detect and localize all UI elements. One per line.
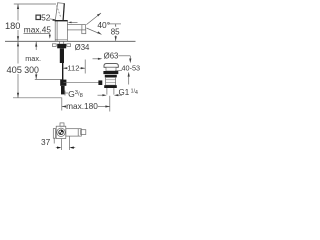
square symbol of 52	[36, 15, 40, 19]
arrow above spout	[68, 22, 72, 24]
svg-text:52: 52	[41, 12, 51, 22]
pipe thread dim arrows	[98, 94, 103, 96]
dim max300 upper line	[35, 42, 37, 50]
drain threaded body	[106, 77, 116, 85]
detail stub	[81, 130, 86, 135]
arrow up top (180)	[17, 4, 19, 9]
dim chain vertical line	[17, 4, 19, 98]
svg-text:Ø34: Ø34	[75, 43, 90, 52]
detail ext lines	[60, 139, 62, 150]
arrow down at deck (180)	[17, 36, 19, 41]
svg-text:300: 300	[24, 65, 39, 75]
dim 405 bottom tick	[13, 97, 62, 99]
hose	[62, 63, 64, 80]
G3/8 tick	[64, 91, 66, 96]
drain locknut dark	[104, 85, 117, 88]
svg-text:Ø63: Ø63	[104, 51, 119, 60]
svg-text:max.45: max.45	[24, 25, 52, 35]
below deck: washer wings	[52, 44, 56, 47]
hose end tube	[61, 86, 65, 95]
svg-text:max.: max.	[25, 54, 41, 63]
detail circle	[57, 128, 65, 136]
leader arrow before O63	[93, 58, 100, 60]
shank tube below deck	[59, 41, 61, 44]
svg-text:405: 405	[6, 65, 22, 75]
spout	[67, 25, 85, 30]
drain centerline ext	[109, 96, 111, 112]
white gaps behind texts on dimension lines	[4, 21, 121, 75]
drain band2 dark	[105, 75, 117, 78]
detail bump	[60, 123, 64, 126]
drain body	[106, 67, 116, 71]
drain seal dark band	[103, 71, 118, 74]
svg-text:max.180: max.180	[66, 101, 98, 111]
deck line	[5, 40, 136, 42]
svg-text:40-53: 40-53	[121, 64, 140, 73]
rod to drain	[64, 82, 99, 84]
svg-text:37: 37	[41, 137, 51, 147]
leader 52	[50, 18, 56, 21]
40-53 extension tick	[115, 70, 122, 72]
dim max180	[61, 98, 63, 111]
spout outlet	[82, 30, 86, 34]
arrow up below deck (405)	[17, 42, 19, 47]
hose fitting nut	[60, 80, 66, 86]
dim max300 lower arrow	[35, 73, 37, 79]
dim 112	[63, 67, 67, 69]
svg-text:112: 112	[67, 64, 79, 73]
dim chain 180/405 top tick	[14, 3, 56, 5]
svg-text:85: 85	[111, 27, 120, 36]
spout tip extension line	[84, 60, 86, 74]
tailpipe	[106, 88, 108, 95]
dim max300 bottom tick	[35, 79, 62, 81]
lever dashed centerline	[57, 6, 61, 18]
svg-text:40°: 40°	[97, 20, 110, 30]
O63 leader top	[118, 55, 130, 57]
dim 85	[108, 23, 122, 25]
arrow down bottom (405)	[17, 93, 19, 98]
rod nut	[98, 80, 102, 85]
lever handle	[55, 3, 64, 21]
svg-text:180: 180	[5, 21, 21, 31]
drain: cap	[104, 64, 118, 68]
detail view bracket	[53, 129, 55, 139]
dim 37 arrows	[56, 147, 60, 149]
faucet body	[55, 21, 67, 42]
dim max45 line	[24, 33, 50, 35]
detail square plate	[56, 126, 66, 138]
40 deg rays	[86, 13, 101, 25]
detail tube	[66, 129, 82, 136]
mounting nut	[57, 44, 66, 49]
40-53 lower arrow	[128, 74, 130, 85]
text labels	[5, 12, 140, 147]
shank lower	[60, 48, 64, 63]
